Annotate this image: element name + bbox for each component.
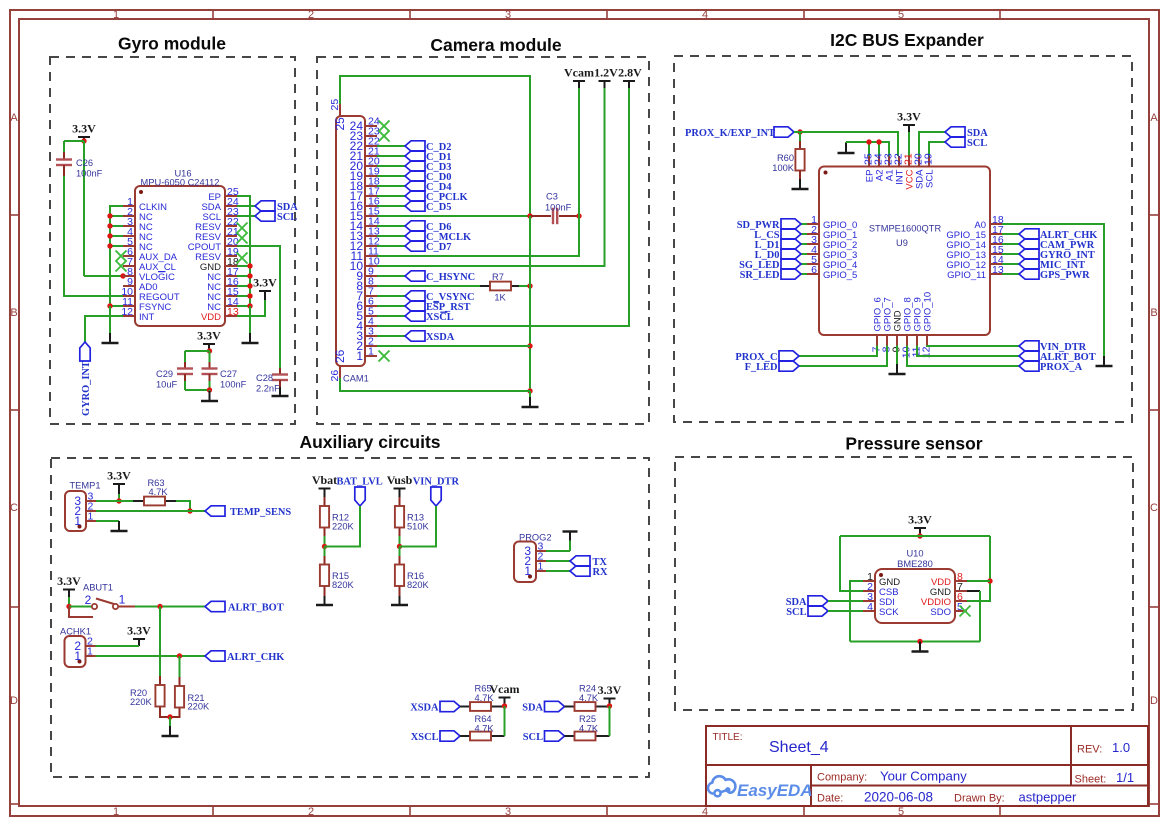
junction <box>987 578 992 583</box>
no-connect X SDO <box>960 606 971 617</box>
wire <box>840 535 990 537</box>
wire <box>377 315 405 317</box>
label C26 <box>76 158 103 179</box>
wire <box>85 316 123 342</box>
TEMP1 pin-1 marker dot <box>78 525 82 529</box>
svg-text:SCL: SCL <box>277 212 297 223</box>
wire <box>801 273 807 275</box>
junction <box>607 703 612 708</box>
net flag GYRO_INT <box>80 342 92 416</box>
EasyEDA logo <box>708 776 813 800</box>
svg-text:SR_LED: SR_LED <box>740 270 780 281</box>
label R63 <box>147 478 168 497</box>
wire <box>377 305 405 307</box>
overline VLOGIC <box>158 271 166 273</box>
PROG2 pin-1 marker dot <box>528 575 532 579</box>
svg-text:C_D7: C_D7 <box>426 242 451 253</box>
no-connect X pin 21 RESV <box>237 233 248 244</box>
no-connect X pin 19 RESV <box>237 253 248 264</box>
svg-text:A: A <box>1150 112 1158 124</box>
svg-text:Sheet_4: Sheet_4 <box>769 739 829 756</box>
junction <box>527 343 532 348</box>
capacitor C26 top lead <box>63 141 65 152</box>
svg-text:XSDA: XSDA <box>410 702 439 713</box>
junction <box>107 223 112 228</box>
title block REV label <box>1077 744 1102 756</box>
wire <box>1002 263 1019 265</box>
resistor R20 leads <box>159 676 161 685</box>
wire <box>377 155 405 157</box>
no-connect X pin 24 <box>379 121 390 132</box>
ground (R16) <box>391 596 408 605</box>
wire <box>324 536 326 547</box>
svg-text:Company:: Company: <box>817 772 867 784</box>
svg-text:C3: C3 <box>546 192 558 202</box>
svg-text:C_HSYNC: C_HSYNC <box>426 272 475 283</box>
no-connect X pin 23 <box>379 131 390 142</box>
svg-text:SCK: SCK <box>879 607 899 618</box>
junction <box>527 283 532 288</box>
svg-text:C_D5: C_D5 <box>426 202 451 213</box>
wire <box>546 560 570 562</box>
svg-text:GPIO_11: GPIO_11 <box>947 270 986 281</box>
wire <box>377 185 405 187</box>
svg-text:A: A <box>10 112 18 124</box>
svg-text:C26: C26 <box>76 158 93 168</box>
ACHK1 pin-1 marker dot <box>78 660 82 664</box>
svg-text:SCL: SCL <box>967 138 987 149</box>
label PROG2 <box>519 533 552 543</box>
net flag TEMP_SENS <box>205 506 291 518</box>
wire <box>159 607 161 677</box>
label R25 <box>579 714 599 733</box>
section title Camera module <box>430 35 562 55</box>
svg-text:TITLE:: TITLE: <box>713 732 743 743</box>
junction <box>247 263 252 268</box>
svg-text:XSCL: XSCL <box>411 732 439 743</box>
svg-text:ALRT_BOT: ALRT_BOT <box>1040 352 1096 363</box>
wire <box>546 570 570 572</box>
label BME280 <box>897 559 933 569</box>
svg-text:2: 2 <box>85 593 92 607</box>
svg-text:SDA: SDA <box>522 702 543 713</box>
capacitor C29 <box>177 369 193 375</box>
svg-text:4.7K: 4.7K <box>579 693 599 703</box>
wire <box>377 216 579 256</box>
capacitor C3 left lead <box>530 215 551 217</box>
wire <box>64 140 84 142</box>
wire <box>377 88 605 266</box>
net flag L_CS <box>754 229 801 241</box>
wire <box>118 494 120 501</box>
net flag ESP_RST <box>405 301 471 313</box>
resistor R13 leads <box>399 497 401 506</box>
wire <box>979 591 981 642</box>
wire <box>850 581 863 642</box>
junction <box>107 243 112 248</box>
svg-text:1: 1 <box>74 649 81 663</box>
wire <box>110 245 123 247</box>
resistor R12 <box>320 506 329 528</box>
net flag C_D5 <box>405 201 451 213</box>
svg-text:100K: 100K <box>772 163 795 173</box>
wire <box>96 520 119 522</box>
capacitor C27 top lead <box>209 351 211 362</box>
junction <box>527 213 532 218</box>
svg-text:1/1: 1/1 <box>1116 770 1134 785</box>
svg-text:220K: 220K <box>188 702 211 712</box>
wire <box>1002 253 1019 255</box>
wire <box>907 346 1019 367</box>
svg-text:MPU-6050 C24112: MPU-6050 C24112 <box>141 178 220 188</box>
ground (BME280) <box>912 642 929 652</box>
wire <box>400 506 437 547</box>
svg-text:5: 5 <box>898 806 904 818</box>
section title Pressure sensor <box>845 434 982 454</box>
label MPU-6050 C24112 <box>141 178 220 188</box>
junction <box>187 508 192 513</box>
wire <box>96 500 119 502</box>
wire <box>799 346 887 367</box>
net flag SDA (BME280) <box>786 596 828 608</box>
svg-text:Camera module: Camera module <box>430 35 562 55</box>
net flag ALRT_BOT <box>205 601 284 613</box>
wire <box>185 389 210 391</box>
svg-text:VIN_DTR: VIN_DTR <box>413 477 460 488</box>
wire <box>325 506 361 547</box>
net flag C_D0 <box>405 171 451 183</box>
capacitor C29 bottom lead <box>184 374 186 381</box>
title block frame <box>706 726 1148 806</box>
net flag L_D1 <box>755 239 801 251</box>
wire <box>868 142 870 156</box>
U10 pin-1 marker dot <box>879 573 883 577</box>
wire <box>846 142 889 156</box>
wire <box>578 88 580 216</box>
svg-text:3.3V: 3.3V <box>57 574 81 588</box>
svg-text:820K: 820K <box>332 580 355 590</box>
net flag SDA <box>945 127 988 139</box>
svg-text:Vcam: Vcam <box>564 66 594 80</box>
no-connect X pin 7 AUX_CL <box>116 261 127 272</box>
junction <box>247 293 252 298</box>
junction <box>866 139 871 144</box>
wire <box>110 235 123 237</box>
label C28 <box>256 373 280 394</box>
svg-text:3.3V: 3.3V <box>253 276 277 290</box>
wire <box>377 175 405 177</box>
dashed box Camera module <box>317 57 649 424</box>
connector ACHK1 body <box>65 636 86 667</box>
wire <box>237 205 255 207</box>
resistor R24 <box>575 702 596 711</box>
label R60 <box>772 153 795 173</box>
wire <box>340 76 530 216</box>
wire <box>850 641 980 643</box>
label STMPE1600QTR <box>869 224 942 234</box>
label ACHK1 <box>60 627 91 637</box>
ground (gyro left) <box>102 306 119 343</box>
resistor R24 leads <box>565 706 575 708</box>
svg-text:Vcam: Vcam <box>490 682 520 696</box>
wire <box>340 378 530 391</box>
svg-text:Sheet:: Sheet: <box>1075 774 1107 786</box>
wire <box>237 285 250 287</box>
svg-text:INT: INT <box>139 312 155 323</box>
wire <box>185 350 210 352</box>
dashed box Auxiliary circuits <box>51 458 649 777</box>
label R20 <box>130 688 153 707</box>
net flag MIC_INT (U9) <box>1019 259 1085 271</box>
svg-text:PROX_K/EXP_INT: PROX_K/EXP_INT <box>685 128 775 139</box>
svg-text:4.7K: 4.7K <box>148 487 168 497</box>
overline XSCL <box>440 311 447 313</box>
wire <box>69 606 92 608</box>
title block Drawn By label <box>954 793 1005 805</box>
svg-text:C: C <box>1150 502 1158 514</box>
junction <box>207 387 212 392</box>
wire <box>917 346 1019 357</box>
ground (R15) <box>316 596 333 605</box>
wire <box>929 142 945 156</box>
switch ABUT1 <box>92 604 97 609</box>
section title Gyro module <box>118 34 226 54</box>
wire <box>110 206 123 306</box>
svg-text:1.2V: 1.2V <box>594 66 618 80</box>
resistor R63 <box>144 497 165 506</box>
wire <box>110 215 123 217</box>
wire <box>840 536 863 591</box>
label R12 <box>332 513 355 532</box>
resistor R65 <box>470 702 491 711</box>
capacitor C27 <box>202 369 218 375</box>
svg-text:Date:: Date: <box>817 793 843 805</box>
capacitor C3 right lead <box>559 215 579 217</box>
frame row letters <box>10 112 1158 707</box>
label ABUT1 <box>83 583 113 593</box>
ground (U9 GND pin) <box>889 346 906 375</box>
label R65 <box>475 684 495 703</box>
capacitor C28 <box>272 375 288 381</box>
svg-text:SCL: SCL <box>786 607 806 618</box>
wire <box>377 205 405 207</box>
ground (gyro right) <box>242 306 259 343</box>
svg-text:Auxiliary circuits: Auxiliary circuits <box>299 432 440 452</box>
svg-text:2: 2 <box>308 806 314 818</box>
svg-text:SDO: SDO <box>930 607 951 618</box>
net flag C_MCLK <box>405 231 471 243</box>
wire <box>96 655 206 657</box>
svg-text:Drawn By:: Drawn By: <box>954 793 1005 805</box>
net flag GYRO_INT (U9) <box>1019 249 1095 261</box>
wire <box>237 295 250 297</box>
net flag SR_LED <box>740 269 801 281</box>
svg-text:3.3V: 3.3V <box>72 122 96 136</box>
junction <box>247 303 252 308</box>
wire <box>237 265 250 267</box>
ground (PROG2, inverted) <box>563 532 578 552</box>
svg-text:220K: 220K <box>130 697 153 707</box>
wire <box>529 216 531 391</box>
wire <box>399 536 401 547</box>
frame column numbers <box>113 9 904 818</box>
dashed box Pressure sensor <box>675 457 1133 710</box>
title block TITLE label <box>713 732 743 743</box>
svg-text:820K: 820K <box>407 580 430 590</box>
net flag C_D7 <box>405 241 451 253</box>
svg-text:220K: 220K <box>332 522 355 532</box>
svg-text:510K: 510K <box>407 522 430 532</box>
dashed box Gyro module <box>50 57 295 424</box>
wire <box>799 346 877 357</box>
junction <box>107 303 112 308</box>
U9 top pins 25-19 <box>863 153 936 189</box>
no-connect X pin 1 <box>379 351 390 362</box>
ground (R20/R21) <box>162 717 179 736</box>
wire <box>801 263 807 265</box>
wire <box>377 88 629 326</box>
label CAM1 <box>343 374 369 384</box>
wire <box>377 235 405 237</box>
power 3.3V (TEMP1) <box>107 469 131 495</box>
svg-text:3.3V: 3.3V <box>598 683 622 697</box>
svg-text:SCL: SCL <box>925 170 936 188</box>
wire <box>68 597 70 607</box>
svg-text:25: 25 <box>333 117 347 131</box>
label R64 <box>475 714 495 733</box>
svg-text:1.0: 1.0 <box>1112 740 1130 755</box>
svg-text:GPS_PWR: GPS_PWR <box>1040 270 1090 281</box>
net flag GPS_PWR (U9) <box>1019 269 1090 281</box>
power flag 2.8V <box>618 66 642 89</box>
net flag XSCL (pull-up) <box>411 731 460 743</box>
title block sheet name <box>769 739 829 756</box>
net flag C_D4 <box>405 181 451 193</box>
wire <box>828 600 863 602</box>
svg-text:1: 1 <box>524 564 531 578</box>
svg-text:1: 1 <box>538 561 544 573</box>
junction <box>917 533 922 538</box>
net flag L_D0 <box>755 249 801 261</box>
wire <box>609 706 611 736</box>
CAM1 pin 25 (top) <box>329 99 347 131</box>
svg-text:VIN_DTR: VIN_DTR <box>1040 342 1087 353</box>
wire <box>377 245 405 247</box>
svg-text:2020-06-08: 2020-06-08 <box>864 790 933 805</box>
wire <box>377 225 405 227</box>
svg-text:100nF: 100nF <box>545 203 572 213</box>
svg-text:4.7K: 4.7K <box>579 723 599 733</box>
svg-text:U10: U10 <box>906 549 923 559</box>
power flag Vusb <box>387 473 413 497</box>
net flag C_HSYNC <box>405 271 475 283</box>
resistor R60 bottom lead <box>799 171 801 180</box>
wire <box>119 500 133 502</box>
IC U10 BME280 body <box>875 569 955 623</box>
net flag VIN_DTR <box>413 477 460 507</box>
wire <box>399 547 401 557</box>
svg-text:4: 4 <box>702 806 708 818</box>
wire <box>1002 273 1019 275</box>
net flag XSDA <box>405 331 455 343</box>
junction <box>81 138 86 143</box>
wire <box>377 335 405 337</box>
junction <box>876 139 881 144</box>
no-connect X pin 22 RESV <box>237 223 248 234</box>
title block sheet value <box>1116 770 1134 785</box>
svg-text:2.8V: 2.8V <box>618 66 642 80</box>
resistor R13 <box>395 506 404 528</box>
TEMP1 pins 3-1 <box>74 491 96 529</box>
connector CAM1 body <box>336 116 365 366</box>
svg-text:19: 19 <box>923 153 935 165</box>
junction <box>107 213 112 218</box>
svg-text:D: D <box>1150 695 1158 707</box>
wire <box>1002 224 1104 356</box>
svg-text:C27: C27 <box>220 369 237 379</box>
svg-text:Vusb: Vusb <box>387 473 413 487</box>
net flag CAM_PWR (U9) <box>1019 239 1095 251</box>
wire <box>377 295 405 297</box>
resistor R60 <box>795 149 804 171</box>
net flag SCL <box>945 137 987 149</box>
title block rev value <box>1112 740 1130 755</box>
resistor R64 <box>470 732 491 741</box>
wire <box>1002 243 1019 245</box>
ground (under C28) <box>272 387 289 396</box>
junction <box>502 703 507 708</box>
svg-text:4.7K: 4.7K <box>475 723 495 733</box>
wire <box>1002 233 1019 235</box>
label R7 <box>492 272 506 303</box>
svg-text:C28: C28 <box>256 373 273 383</box>
power 3.3V (gyro top) <box>72 122 96 142</box>
junction <box>322 544 327 549</box>
junction <box>157 604 162 609</box>
resistor R16 leads <box>399 556 401 565</box>
label C3 <box>545 192 572 213</box>
wire <box>179 656 181 677</box>
svg-text:10uF: 10uF <box>156 380 178 390</box>
label U10 <box>906 549 923 559</box>
connector TEMP1 body <box>65 491 86 531</box>
capacitor C26 <box>56 160 72 166</box>
wire <box>927 345 1019 348</box>
svg-text:TEMP1: TEMP1 <box>70 481 101 491</box>
ground (camera) <box>522 391 539 407</box>
svg-text:4: 4 <box>867 601 873 613</box>
svg-text:XSCL: XSCL <box>426 312 454 323</box>
svg-text:GYRO_INT: GYRO_INT <box>81 361 92 416</box>
svg-text:B: B <box>1150 307 1157 319</box>
svg-text:Your Company: Your Company <box>880 769 967 784</box>
no-connect X pin 6 AUX_DA <box>116 251 127 262</box>
power 3.3V (pull-up) <box>598 683 622 706</box>
junction <box>247 283 252 288</box>
resistor R65 leads <box>460 706 470 708</box>
title block Company label <box>817 772 867 784</box>
power flag Vcam (pull-up) <box>490 682 520 706</box>
svg-text:RX: RX <box>593 567 609 578</box>
wire <box>237 196 250 306</box>
svg-text:REV:: REV: <box>1077 744 1102 756</box>
svg-text:EasyEDA: EasyEDA <box>737 781 813 800</box>
junction <box>576 213 581 218</box>
capacitor C28 bottom lead <box>279 380 281 387</box>
label R15 <box>332 571 355 590</box>
title block Sheet label <box>1075 774 1107 786</box>
wire <box>237 215 255 217</box>
